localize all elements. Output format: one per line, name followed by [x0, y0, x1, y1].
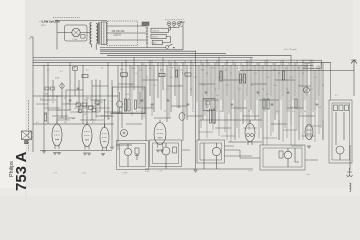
trimmer C18 — [206, 101, 209, 105]
svg-text:220 V: 220 V — [41, 25, 46, 27]
svg-text:0.5: 0.5 — [314, 77, 317, 79]
svg-text:~ 5,5W 2x0,35A: ~ 5,5W 2x0,35A — [39, 20, 61, 24]
wire bus F — [33, 62, 331, 64]
svg-text:25: 25 — [286, 89, 288, 91]
svg-text:2M: 2M — [206, 107, 209, 109]
resistor R22 — [345, 105, 349, 111]
padder C16 — [279, 151, 283, 158]
svg-text:6-8: 6-8 — [45, 94, 48, 96]
antenna — [351, 60, 357, 71]
wire segs C — [57, 116, 315, 128]
svg-text:0.1: 0.1 — [234, 107, 237, 109]
resistor R11 — [243, 74, 245, 83]
tone control box — [303, 60, 322, 68]
svg-text:1.080: 1.080 — [122, 173, 128, 175]
transformer T1 core — [98, 22, 100, 45]
svg-text:(0.5 - 30 μμF): (0.5 - 30 μμF) — [284, 49, 297, 51]
svg-text:1MΩ: 1MΩ — [131, 68, 136, 70]
svg-text:0.5: 0.5 — [298, 85, 301, 87]
wire rail right2 — [228, 141, 262, 143]
svg-text:50: 50 — [262, 89, 264, 91]
svg-text:0.1: 0.1 — [276, 111, 279, 113]
svg-text:0.5: 0.5 — [226, 85, 229, 87]
svg-text:1M: 1M — [290, 107, 293, 109]
capacitor C7 — [205, 92, 208, 93]
svg-text:0.1: 0.1 — [58, 110, 61, 112]
resistor R23 — [82, 75, 88, 78]
ground — [307, 146, 311, 148]
svg-text:1M: 1M — [266, 77, 269, 79]
wire left grid horizontals 2 — [36, 104, 104, 120]
fuse block — [81, 35, 85, 39]
svg-text:50: 50 — [84, 100, 86, 102]
resistor R21 — [339, 105, 343, 111]
svg-text:50: 50 — [108, 118, 110, 120]
dropper chain — [146, 26, 148, 49]
wire segs A — [44, 63, 331, 100]
svg-text:0.1: 0.1 — [318, 107, 321, 109]
wave switch dashed rail — [28, 100, 30, 151]
svg-text:50: 50 — [322, 85, 324, 87]
wire S4 internals — [288, 148, 299, 167]
svg-text:0.1: 0.1 — [290, 77, 293, 79]
svg-text:0.5: 0.5 — [76, 102, 79, 104]
tube V4 AL4 — [154, 120, 166, 148]
capacitor C17 — [77, 88, 80, 89]
resistor R13 — [267, 99, 269, 109]
svg-text:25: 25 — [302, 73, 304, 75]
wire S1 internals — [128, 144, 137, 167]
svg-text:0.1: 0.1 — [192, 111, 195, 113]
svg-text:0.1: 0.1 — [40, 98, 43, 100]
IF coil L0 — [117, 101, 123, 107]
dial lamp enclosure — [65, 25, 88, 41]
wire bus E — [33, 59, 313, 61]
pickup PU — [22, 131, 32, 140]
fuse label box — [142, 22, 149, 25]
svg-text:25: 25 — [164, 111, 166, 113]
svg-text:1M: 1M — [250, 85, 253, 87]
svg-text:0.1: 0.1 — [182, 73, 185, 75]
transformer T1 primary winding — [90, 23, 92, 45]
ground — [83, 153, 87, 155]
svg-text:2M: 2M — [100, 102, 103, 104]
svg-text:25: 25 — [214, 89, 216, 91]
dial lamp LPF — [72, 28, 80, 36]
svg-text:L.P.F: L.P.F — [73, 39, 79, 41]
svg-text:25: 25 — [64, 98, 66, 100]
svg-text:25: 25 — [142, 89, 144, 91]
resistor mains R1 — [151, 28, 168, 32]
earth bottom right — [347, 168, 353, 177]
ground — [87, 153, 91, 155]
svg-text:0.5: 0.5 — [178, 107, 181, 109]
capacitor C1 — [69, 100, 72, 101]
svg-text:0.1: 0.1 — [310, 89, 313, 91]
trimmer C14 — [135, 148, 139, 154]
svg-text:50: 50 — [150, 107, 152, 109]
wire S0 internals — [120, 92, 141, 114]
ground — [42, 151, 46, 153]
resistor R14 — [282, 71, 284, 80]
svg-text:0.1: 0.1 — [202, 85, 205, 87]
svg-text:0.1: 0.1 — [274, 85, 277, 87]
svg-text:0.5: 0.5 — [262, 107, 265, 109]
wire vertical drops deep — [199, 90, 323, 145]
resistor R10 — [239, 74, 241, 83]
svg-text:2x22 Ω: 2x22 Ω — [114, 35, 122, 37]
svg-text:2M: 2M — [273, 70, 276, 72]
svg-text:2M: 2M — [178, 85, 181, 87]
IF transformer shield S0 — [113, 87, 146, 113]
plug leads — [169, 25, 179, 27]
svg-text:50: 50 — [220, 111, 222, 113]
resistor R5 — [128, 99, 130, 111]
resistor R15 — [295, 99, 297, 108]
jack socket — [121, 130, 128, 137]
ballast resistor block — [101, 22, 106, 45]
wire mains top — [55, 21, 107, 50]
wire S3 internals — [204, 143, 217, 160]
resistor R17 — [159, 73, 165, 76]
capacitor C5 — [167, 100, 170, 101]
voltage selector plugs — [165, 19, 184, 21]
trimmer C15 — [173, 147, 177, 153]
capacitor C4 — [151, 104, 154, 105]
dashed row top — [53, 17, 80, 19]
svg-text:0.1: 0.1 — [88, 98, 91, 100]
IF transformer shield S3 — [197, 140, 225, 163]
wire ground rail left — [40, 150, 112, 152]
resistor R18 — [175, 70, 177, 77]
tube V2 AF3 — [82, 122, 92, 150]
svg-text:0.1: 0.1 — [254, 73, 257, 75]
resistor R4 — [124, 99, 126, 111]
IF coil L2 — [162, 147, 170, 155]
wire right drop — [350, 71, 354, 171]
resistor R7 — [209, 109, 211, 123]
svg-text:0.5: 0.5 — [154, 85, 157, 87]
svg-text:25: 25 — [158, 73, 160, 75]
resistor mains R3 — [152, 41, 162, 45]
svg-text:2M: 2M — [194, 77, 197, 79]
svg-text:1M: 1M — [201, 70, 204, 72]
oscillator shield S4 — [260, 145, 305, 170]
svg-text:0.2: 0.2 — [36, 122, 39, 124]
ground — [57, 153, 61, 155]
IF coil L3 — [212, 147, 220, 155]
wire rail right-mid — [200, 119, 262, 121]
coupling coil — [60, 84, 64, 88]
svg-text:1M: 1M — [64, 122, 67, 124]
svg-text:0.1: 0.1 — [166, 89, 169, 91]
wire selector links — [107, 26, 146, 40]
svg-text:50: 50 — [130, 85, 132, 87]
wire bottom long rail — [145, 168, 253, 170]
IF transformer shield S1 — [117, 141, 149, 170]
svg-text:25: 25 — [248, 111, 250, 113]
junction — [57, 20, 58, 21]
svg-text:+: + — [29, 37, 31, 41]
svg-text:0.1: 0.1 — [92, 122, 95, 124]
component cluster A — [45, 87, 49, 90]
wire bus G — [33, 64, 313, 66]
resistor R16 — [121, 73, 128, 76]
wire pickup leads — [32, 133, 34, 137]
tube V5 AZ1 — [245, 120, 255, 145]
wire bus D — [33, 57, 253, 59]
wire heater bus B — [100, 52, 226, 54]
resistor R24 — [44, 113, 46, 121]
speaker coil L5 — [336, 146, 344, 154]
resistor R6 — [134, 100, 136, 109]
ground — [156, 150, 160, 152]
svg-text:50: 50 — [52, 102, 54, 104]
tube V3 ABC1 — [100, 124, 109, 151]
choke bottom right — [350, 183, 351, 191]
svg-text:50: 50 — [278, 73, 280, 75]
svg-text:50: 50 — [190, 89, 192, 91]
switch S6 — [181, 22, 185, 26]
wire dropper to plugs — [162, 26, 170, 43]
capacitor C11 — [287, 92, 290, 93]
wire vertical drops fine — [132, 60, 321, 118]
svg-text:0.008: 0.008 — [145, 171, 150, 173]
output shield S5 — [329, 100, 352, 163]
svg-text:50: 50 — [146, 77, 148, 79]
wire S3-S4 links — [182, 146, 318, 160]
resistor mains R2 — [151, 34, 166, 38]
svg-text:0.1: 0.1 — [136, 111, 139, 113]
capacitor C8 — [231, 104, 234, 105]
svg-text:125 150 220: 125 150 220 — [112, 31, 125, 33]
wire left rail — [32, 37, 34, 152]
wire left rail top link — [30, 36, 33, 38]
transformer T1 secondary winding — [96, 24, 98, 44]
svg-text:0.1: 0.1 — [238, 89, 241, 91]
capacitor C2 — [97, 104, 100, 105]
wire transformer bottom — [92, 44, 97, 50]
tube V7 small — [179, 113, 185, 121]
svg-text:0.5-30: 0.5-30 — [305, 63, 312, 65]
terminal box — [73, 67, 78, 70]
svg-text:0.5: 0.5 — [96, 110, 99, 112]
svg-text:0.5: 0.5 — [242, 77, 245, 79]
svg-text:30: 30 — [122, 77, 124, 79]
wire chassis rail left — [33, 123, 114, 125]
resistor R19 — [185, 73, 191, 76]
ground — [53, 153, 57, 155]
ground — [110, 147, 114, 149]
resistor R12 — [263, 99, 265, 109]
wire S2 internals — [166, 143, 217, 169]
svg-text:25: 25 — [84, 114, 86, 116]
svg-text:50: 50 — [44, 114, 46, 116]
svg-text:4,5V: 4,5V — [55, 78, 60, 80]
wire vertical drops — [44, 51, 323, 169]
svg-text:25: 25 — [230, 73, 232, 75]
svg-text:50: 50 — [206, 73, 208, 75]
wire rail left-mid — [33, 95, 118, 97]
wire lamp leads — [57, 32, 90, 34]
wire horizontal jogs right — [199, 126, 321, 146]
component cluster B — [76, 103, 81, 106]
svg-text:0.1: 0.1 — [134, 73, 137, 75]
IF coil L1 — [124, 148, 131, 155]
IF transformer shield S2 — [150, 140, 182, 167]
svg-text:753 A: 753 A — [13, 151, 30, 191]
svg-text:800 Ω: 800 Ω — [152, 37, 158, 39]
wire left grid horizontals — [40, 100, 114, 120]
svg-text:50: 50 — [304, 111, 306, 113]
tube V1 AK2 — [52, 121, 62, 149]
capacitor C10 — [271, 104, 274, 105]
wire segs B — [48, 100, 303, 112]
tube V6 indicator — [305, 125, 313, 140]
svg-text:0.5: 0.5 — [170, 77, 173, 79]
junction dots — [43, 64, 46, 67]
ground — [160, 150, 164, 152]
wire heater bus A — [100, 50, 196, 52]
trimmer C13 — [304, 87, 310, 93]
mains switch — [166, 46, 169, 49]
capacitor C6 — [187, 104, 190, 105]
bandpass box — [203, 99, 215, 111]
ground — [194, 170, 198, 172]
wire S5 internals — [336, 112, 344, 160]
wire rail mid — [116, 144, 132, 146]
svg-text:0.1: 0.1 — [118, 89, 121, 91]
pickup body — [25, 141, 28, 144]
resistor R9 — [220, 71, 222, 81]
wire heater runs — [100, 27, 183, 50]
capacitor C3 — [141, 100, 144, 101]
resistor R20 — [334, 105, 338, 111]
capacitor C12 — [316, 104, 319, 105]
resistor R8 — [213, 109, 215, 123]
wire HT bus C — [107, 55, 291, 57]
ground — [101, 154, 105, 156]
capacitor C9 — [257, 92, 260, 93]
svg-text:1M: 1M — [206, 111, 209, 113]
voltage selector panel — [108, 21, 138, 46]
wire AVC bus H — [240, 70, 354, 72]
svg-text:0.1: 0.1 — [218, 77, 221, 79]
oscillator coil L4 — [284, 151, 292, 159]
svg-text:1200 Ω: 1200 Ω — [152, 30, 159, 32]
